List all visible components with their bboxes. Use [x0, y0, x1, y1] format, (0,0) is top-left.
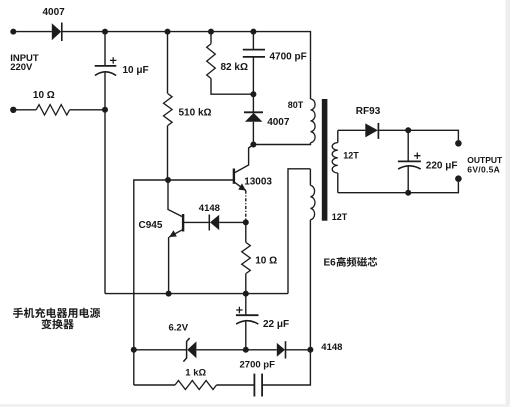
- wire D4 to node N: [286, 349, 311, 351]
- svg-text:510 kΩ: 510 kΩ: [179, 107, 212, 118]
- svg-text:1 kΩ: 1 kΩ: [185, 368, 206, 379]
- wire Q1 emitter down to node K (dash-dot look): [245, 191, 247, 223]
- node P junction (zener rail left): [131, 347, 137, 353]
- wire node M to D4: [246, 349, 277, 351]
- transistor Q1 13003 collector: [235, 145, 253, 173]
- node H junction (collector/primary): [250, 142, 256, 148]
- svg-text:4148: 4148: [321, 342, 342, 353]
- label 4700 pF (C2): [270, 51, 307, 62]
- label 510 kohm (R2): [179, 107, 212, 118]
- wire node Q down to C5: [407, 130, 409, 161]
- label 82 kohm (R3): [221, 62, 248, 73]
- transistor Q2 C945 base bar: [182, 214, 184, 232]
- wire top rail: node D to transformer primary top: [253, 32, 310, 99]
- transformer T1 core (ferrite bar): [322, 99, 328, 221]
- node C junction (top of R3): [208, 29, 214, 35]
- node F junction (base drive): [165, 177, 171, 183]
- resistor R2 510 kohm: [164, 94, 173, 126]
- resistor R5 1 kohm: [175, 381, 217, 390]
- node L junction (R4/C3 on mid rail): [243, 291, 249, 297]
- label 12T (secondary): [343, 150, 359, 160]
- label 80T (primary): [288, 100, 304, 110]
- node N junction (winding/D4): [307, 347, 313, 353]
- node B junction (top of R2): [165, 29, 171, 35]
- wire R5 to C4: [217, 384, 255, 386]
- wire base line node F to Q1 base: [168, 179, 234, 181]
- svg-text:220V: 220V: [10, 62, 33, 73]
- resistor R1 10 ohm: [36, 105, 69, 115]
- wire base line node F left then down: [134, 180, 168, 385]
- wire node D down to C2: [252, 32, 254, 50]
- node J junction (Q2 emitter on mid rail): [166, 291, 172, 297]
- svg-text:4148: 4148: [199, 203, 220, 214]
- label 10 ohm (R4): [255, 256, 277, 267]
- node E junction (10ohm input): [102, 107, 108, 113]
- wire top rail: node B to node C: [168, 31, 212, 33]
- wire R4 down to node L: [245, 274, 247, 294]
- node M junction (C3 bottom): [243, 347, 249, 353]
- svg-text:220 μF: 220 μF: [426, 160, 458, 171]
- svg-text:6V/0.5A: 6V/0.5A: [467, 165, 500, 175]
- wire feedback winding top to left leg: [288, 169, 310, 294]
- wire node R to output-: [408, 182, 458, 193]
- wire node L down to C3: [245, 294, 247, 316]
- label OUTPUT 6V/0.5A: [467, 155, 503, 175]
- wire R3 down then right to node G: [211, 79, 253, 95]
- diode D5 RF93 (output rectifier): [365, 123, 378, 139]
- node Q junction (C5 top): [405, 127, 411, 133]
- wire secondary top to D5: [338, 129, 366, 131]
- transformer T1 feedback winding 12T: [310, 169, 315, 220]
- label 2700 pF (C4): [240, 360, 276, 371]
- svg-text:RF93: RF93: [356, 106, 381, 117]
- wire lower input to R1: [13, 109, 36, 111]
- label 1 kohm (R5): [185, 368, 206, 379]
- node R junction (C5 bottom): [405, 190, 411, 196]
- input terminal (line) upper: [10, 29, 16, 35]
- svg-text:22 μF: 22 μF: [263, 319, 289, 330]
- wire D5 to node Q: [378, 129, 408, 131]
- wire R1 to node E: [70, 109, 105, 111]
- label 10 ohm (R1): [33, 90, 55, 101]
- label 22 uF (C3): [263, 319, 289, 330]
- node A junction (top of C1): [102, 29, 108, 35]
- transistor Q1 13003 base bar: [233, 169, 235, 184]
- wire zener rail: node P to ZD1: [134, 349, 186, 351]
- wire top rail: D1 to node A: [62, 31, 105, 33]
- transformer T1 secondary winding 12T: [332, 130, 338, 192]
- wire mid rail: [105, 293, 288, 295]
- wire ZD1 to node M: [196, 349, 245, 351]
- wire D2 down to node H: [252, 122, 254, 145]
- page edge shading right: [506, 0, 510, 407]
- label INPUT 220V: [10, 53, 39, 73]
- svg-text:4700 pF: 4700 pF: [270, 51, 307, 62]
- wire Q2 base to D3: [183, 221, 209, 223]
- transistor Q1 13003 emitter with arrow: [234, 182, 246, 191]
- wire node B down to R2: [167, 32, 169, 94]
- node G junction (C2/R3/D2): [250, 91, 256, 97]
- transformer T1 primary winding 80T: [311, 99, 316, 143]
- svg-text:80T: 80T: [288, 100, 304, 110]
- label 12T (feedback): [332, 212, 348, 222]
- svg-text:12T: 12T: [343, 150, 359, 160]
- label 13003 (Q1): [244, 176, 272, 187]
- capacitor C1 10uF (electrolytic): [95, 57, 117, 75]
- label 4007 (D1): [43, 7, 66, 18]
- capacitor C4 2700 pF: [254, 374, 262, 397]
- wire node H right to primary bottom: [253, 143, 310, 145]
- wire node E down to mid rail: [104, 111, 106, 294]
- label RF93 (D5): [356, 106, 381, 117]
- svg-text:C945: C945: [139, 220, 163, 231]
- wire top rail: node C to node D: [211, 31, 253, 33]
- wire C1 down to node E: [104, 73, 106, 110]
- output terminal plus: [455, 140, 462, 147]
- node D junction (top of C2): [250, 29, 256, 35]
- node K junction (emitter/R4): [243, 219, 249, 225]
- wire R2 down to node F: [167, 126, 169, 181]
- wire Q2 emitter down to mid rail: [168, 237, 170, 294]
- label 10 uF (C1): [123, 65, 149, 76]
- svg-text:82 kΩ: 82 kΩ: [221, 62, 248, 73]
- label 220 uF (C5): [426, 160, 458, 171]
- svg-text:E6: E6: [324, 257, 337, 268]
- wire node C down to R3: [210, 32, 212, 44]
- diode D2 4007 (clamp): [244, 112, 263, 122]
- wire C5 down to node R: [407, 166, 409, 192]
- output terminal minus: [455, 175, 462, 182]
- wire D3 to node K: [219, 221, 246, 223]
- wire bottom left leg to R5: [134, 384, 175, 386]
- label 4148 (D3): [199, 203, 220, 214]
- svg-text:OUTPUT: OUTPUT: [467, 155, 503, 165]
- wire node K down to R4: [245, 222, 247, 242]
- wire feedback winding bottom to node N: [309, 220, 311, 350]
- svg-text:4007: 4007: [267, 117, 290, 128]
- svg-text:10 μF: 10 μF: [123, 65, 149, 76]
- resistor R4 10 ohm (emitter): [242, 243, 251, 274]
- wire node Q to output+: [408, 130, 458, 140]
- svg-text:6.2V: 6.2V: [169, 323, 189, 334]
- svg-text:2700 pF: 2700 pF: [240, 360, 276, 371]
- wire C2 down to node G: [252, 57, 254, 94]
- capacitor C3 22uF (electrolytic): [236, 307, 259, 324]
- wire node A down to C1: [104, 32, 106, 66]
- label E6 core (gao pin ci xin): [324, 257, 378, 268]
- transistor Q2 C945 collector: [168, 180, 182, 217]
- svg-text:13003: 13003: [244, 176, 272, 187]
- wire C3 down to node M: [245, 321, 247, 350]
- page edge shading bottom: [0, 404, 510, 407]
- wire C4 right then up to node N: [262, 350, 310, 385]
- wire node G down to D2: [252, 94, 254, 112]
- capacitor C2 4700 pF: [243, 50, 265, 57]
- label C945 (Q2): [139, 220, 163, 231]
- capacitor C5 220uF (electrolytic): [398, 153, 421, 170]
- label 4007 (D2): [267, 117, 290, 128]
- svg-text:10 Ω: 10 Ω: [255, 256, 277, 267]
- wire top rail: node A to node B: [105, 31, 168, 33]
- diode D1 4007 (input rectifier): [52, 23, 62, 42]
- label 6.2V (ZD1): [169, 323, 189, 334]
- label 4148 (D4): [321, 342, 342, 353]
- wire top rail: terminal to D1: [13, 31, 52, 33]
- input terminal (neutral) lower: [10, 107, 16, 113]
- diode D4 4148 (feedback): [277, 341, 286, 358]
- svg-text:4007: 4007: [43, 7, 66, 18]
- resistor R3 82 kohm: [207, 44, 216, 79]
- caption: phone charger power converter (shou ji chong dian qi yong dian yuan / bian huan qi): [13, 308, 100, 330]
- zener diode ZD1 6.2V: [183, 338, 196, 362]
- transistor Q2 C945 emitter with arrow: [169, 229, 183, 237]
- svg-text:12T: 12T: [332, 212, 348, 222]
- wire secondary bottom rail: [338, 192, 408, 194]
- svg-text:10 Ω: 10 Ω: [33, 90, 55, 101]
- diode D3 4148 (base-emitter): [209, 215, 219, 231]
